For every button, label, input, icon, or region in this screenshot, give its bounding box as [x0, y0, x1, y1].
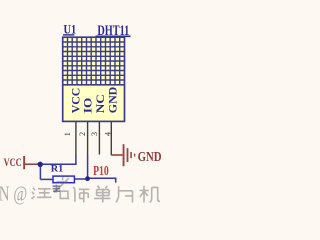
svg-text:VCC: VCC: [4, 157, 22, 169]
hanzi shi: [73, 187, 89, 203]
wire P10 net (right then down): [88, 178, 116, 182]
hanzi dan: [94, 186, 110, 203]
wire pin2 down to junction: [87, 156, 89, 179]
svg-text:N @: N @: [0, 182, 27, 206]
junction dot at pin2 / R1 / P10 net: [85, 176, 90, 181]
wire pin1 down to VCC rail: [75, 156, 77, 165]
power port VCC: [4, 156, 26, 169]
pin 1 stub: [75, 122, 77, 156]
wire R1 right lead: [75, 178, 88, 180]
hanzi ming (crosses R1): [54, 176, 69, 198]
wire R1 left lead: [40, 178, 52, 180]
svg-text:1: 1: [63, 132, 72, 136]
wire VCC rail (junction to pin1): [40, 163, 77, 165]
svg-text:4: 4: [103, 132, 112, 136]
svg-text:3: 3: [90, 132, 99, 136]
designator U1: [63, 22, 76, 37]
power ground GND: [123, 144, 162, 166]
svg-text:P10: P10: [93, 163, 109, 178]
value DHT11: [96, 23, 131, 39]
resistor R1 body: [53, 176, 74, 183]
hanzi pian: [116, 186, 132, 202]
junction dot at VCC rail: [38, 162, 43, 167]
sensor body U1 (grid + pin-name area): [63, 37, 125, 121]
watermark hanzi (drawn strokes): [32, 176, 161, 202]
svg-text:2: 2: [78, 132, 87, 136]
pin 4 stub: [110, 122, 112, 155]
pin 2 stub: [87, 122, 89, 156]
hanzi wang: [32, 188, 52, 199]
wire pin4 to ground symbol (maroon): [111, 154, 122, 156]
wire VCC port to junction (maroon): [25, 163, 40, 165]
svg-text:GND: GND: [138, 150, 162, 165]
pin 3 stub (NC, unconnected): [98, 122, 100, 155]
wire junction down to R1 left lead: [39, 164, 41, 179]
svg-text:R1: R1: [51, 165, 64, 175]
hanzi ji: [140, 186, 160, 203]
svg-text:GND: GND: [105, 86, 119, 113]
